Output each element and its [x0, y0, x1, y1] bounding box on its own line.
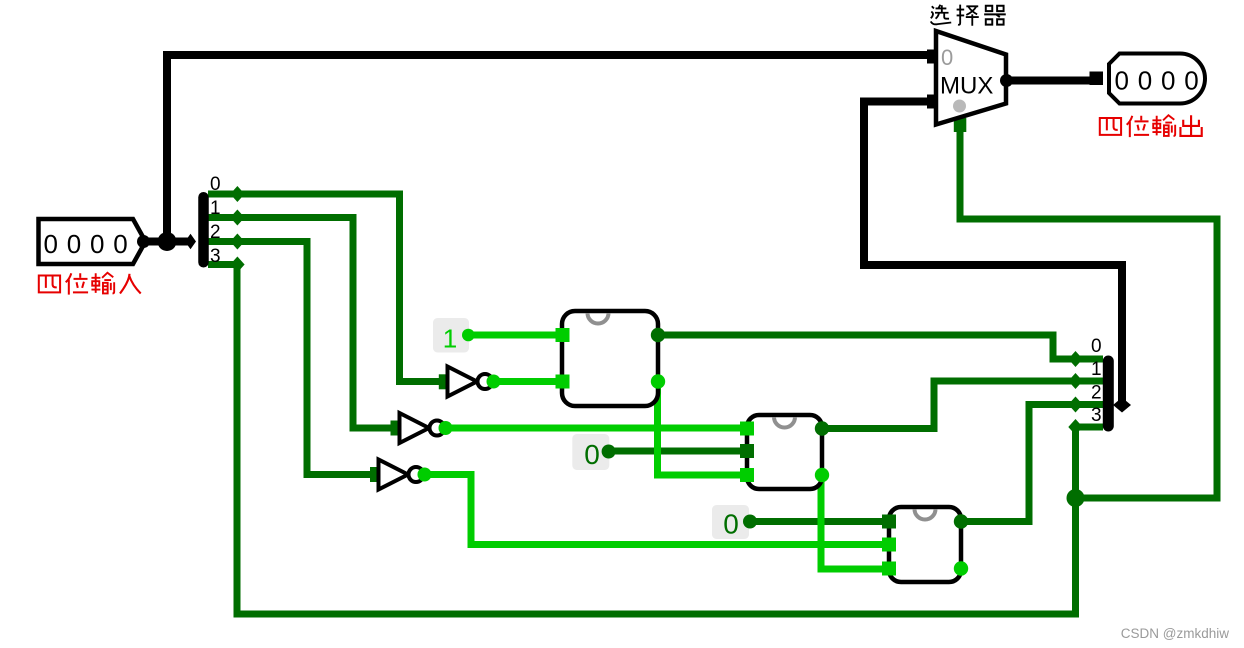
NOT gate 1 output dot	[487, 375, 501, 389]
mux select stub	[954, 118, 967, 132]
NOT gate 3 input stub	[370, 467, 384, 482]
svg-text:MUX: MUX	[940, 73, 993, 100]
wire NOT3 out to gate3 in2	[423, 475, 889, 545]
output pin input stub	[1090, 72, 1104, 86]
NOT gate 2 output dot	[439, 421, 453, 435]
wire gate3 out1 to right splitter leg2	[961, 405, 1103, 522]
gate U1 out2 pin	[651, 374, 665, 388]
NOT gate 2 bubble	[430, 421, 445, 436]
svg-text:2: 2	[1091, 383, 1102, 404]
NOT gate 2 body	[400, 413, 430, 443]
gate U2 out2 pin	[815, 468, 829, 482]
splitter leg diamond 2	[230, 234, 244, 250]
wire input-pin to junction to MUX in0 (top)	[143, 55, 930, 242]
splitter2 leg diamond 3	[1068, 419, 1082, 435]
wire gate1 out1 to right splitter leg0	[658, 335, 1103, 359]
gate U2 notch	[774, 417, 795, 428]
gate U3 out2 pin	[954, 561, 968, 575]
wire gate1 out2 to gate2 in3	[658, 382, 748, 476]
constant 0 B	[712, 505, 749, 539]
wire const0 A to gate2 in2	[609, 448, 745, 455]
wire splitter leg0 to NOT1	[208, 194, 441, 382]
gate U1 in2 pin	[556, 375, 570, 389]
gate U2 in3 pin	[740, 468, 754, 482]
mux in0 stub	[927, 50, 941, 64]
NOT gate 2 input stub	[391, 421, 405, 436]
svg-text:1: 1	[1091, 359, 1102, 380]
wire const1 to gate1 in1	[468, 332, 563, 339]
gate U1 in1 pin	[556, 328, 570, 342]
wire NOT2 out to gate2 in1	[446, 425, 747, 432]
node junction at input	[158, 232, 177, 251]
splitter spine	[198, 197, 209, 262]
gate U1 body	[562, 311, 658, 406]
svg-text:CSDN @zmkdhiw: CSDN @zmkdhiw	[1121, 626, 1229, 641]
mux body	[936, 31, 1006, 125]
splitter2 origin diamond	[1113, 398, 1131, 413]
gate U3 in3 pin	[882, 562, 896, 576]
gate U3 in1 pin	[882, 515, 896, 529]
svg-text:3: 3	[1091, 405, 1102, 426]
splitter leg diamond 0	[230, 186, 244, 202]
constant 1	[433, 318, 469, 353]
splitter2 leg diamond 2	[1068, 397, 1082, 413]
NOT gate 1 input stub	[439, 374, 453, 389]
svg-text:0: 0	[584, 439, 600, 470]
svg-text:0: 0	[941, 45, 953, 70]
NOT gate 1 body	[448, 367, 478, 397]
svg-text:0 0 0 0: 0 0 0 0	[1114, 66, 1199, 96]
wire right-splitter origin to MUX in1	[864, 102, 1122, 406]
splitter2 leg diamond 0	[1068, 351, 1082, 367]
wire const0 B to gate3 in1	[750, 518, 887, 525]
wire junction to splitter origin	[167, 238, 188, 246]
input pin output dot	[137, 235, 150, 248]
label 四位输出 (red)	[1100, 115, 1202, 137]
gate U3 in2 pin	[882, 538, 896, 552]
wire MUX output to output pin	[1010, 77, 1092, 85]
wire gate2 out1 to right splitter leg1	[822, 381, 1103, 429]
svg-text:3: 3	[210, 246, 221, 267]
svg-text:1: 1	[443, 324, 457, 354]
gate U1 notch	[588, 313, 609, 324]
wire splitter leg3 bottom run to right splitter leg3	[208, 265, 1103, 615]
wire MUX select path	[960, 118, 1217, 498]
gate U2 body	[747, 415, 822, 489]
gate U2 out1 pin	[815, 421, 829, 435]
mux select marker dot	[953, 100, 966, 113]
svg-text:0: 0	[1091, 336, 1102, 357]
NOT gate 3 output dot	[418, 468, 432, 482]
wire NOT1 out to gate1 in2	[493, 378, 563, 385]
gate U2 in2 pin	[740, 444, 754, 458]
wire splitter leg2 to NOT3	[208, 242, 372, 475]
wire gate2 out2 to gate3 in3	[821, 475, 889, 569]
splitter2 spine	[1103, 361, 1114, 426]
NOT gate 1 bubble	[478, 374, 493, 389]
label 选择器	[931, 5, 1006, 26]
NOT gate 3 body	[379, 460, 409, 490]
svg-text:0: 0	[723, 509, 739, 540]
node junction select/leg3	[1067, 489, 1085, 507]
splitter leg diamond 1	[230, 210, 244, 226]
wire splitter leg1 to NOT2	[208, 218, 393, 429]
splitter leg diamond 3	[230, 257, 244, 273]
svg-text:0: 0	[210, 174, 221, 195]
gate U3 body	[889, 507, 961, 582]
input pin body	[39, 219, 146, 264]
label 四位输入 (red)	[39, 273, 141, 295]
svg-text:0 0 0 0: 0 0 0 0	[43, 229, 128, 259]
gate U3 out1 pin	[954, 514, 968, 528]
NOT gate 3 bubble	[409, 467, 424, 482]
gate U3 notch	[915, 509, 936, 520]
mux in1 stub	[927, 95, 941, 109]
svg-text:1: 1	[210, 198, 221, 219]
gate U1 out1 pin	[651, 328, 665, 342]
gate U2 in1 pin	[740, 422, 754, 436]
output pin body	[1109, 54, 1205, 104]
constant 0 A	[572, 434, 609, 470]
svg-text:2: 2	[210, 222, 221, 243]
splitter2 leg diamond 1	[1068, 373, 1082, 389]
mux output dot	[1000, 74, 1013, 87]
splitter origin diamond	[185, 234, 196, 249]
